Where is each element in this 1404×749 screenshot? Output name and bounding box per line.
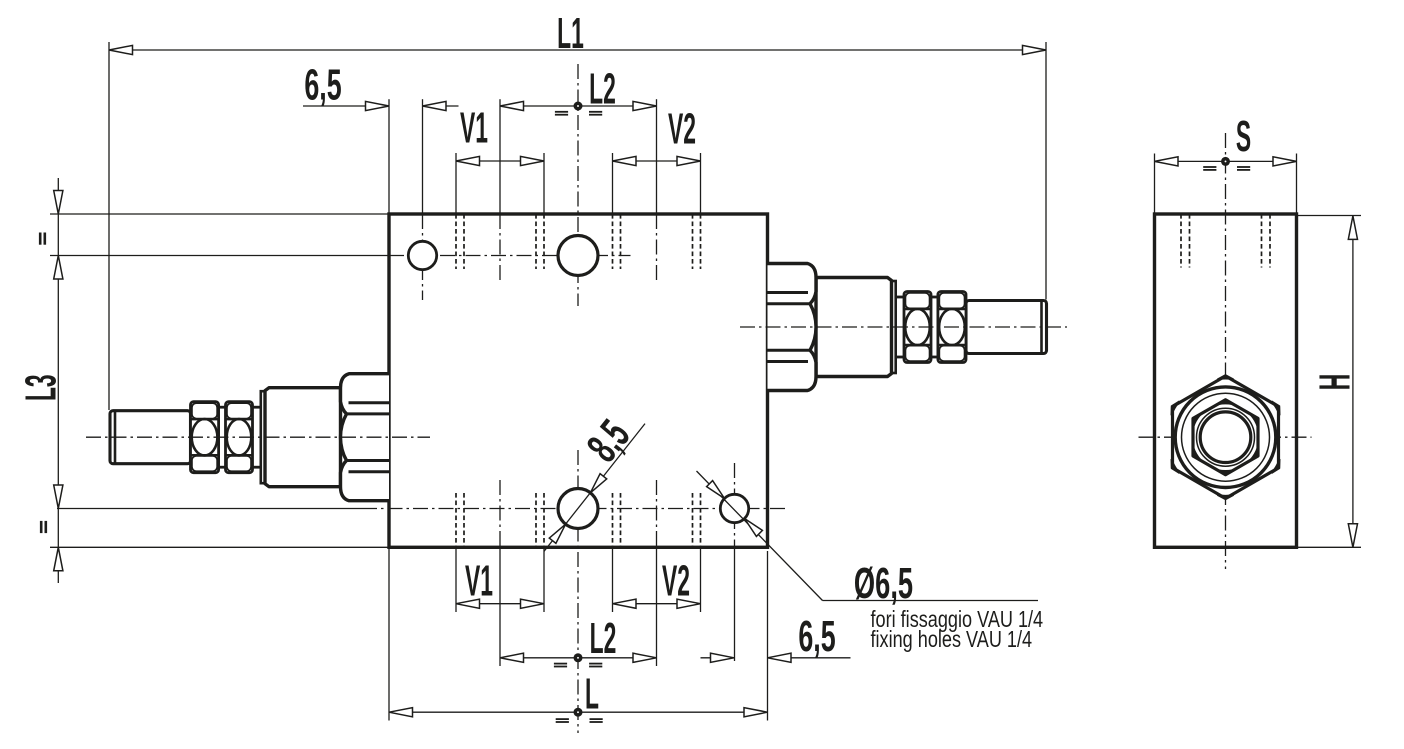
dimension S symmetry marks [1203, 166, 1216, 168]
dimension L1 right arrow [1023, 45, 1047, 54]
dimension L2 top symmetry marks [555, 111, 568, 113]
extension of block bottom edge [50, 546, 389, 548]
hidden thread lines port V1 bottom face [456, 493, 544, 547]
dimension V1 top right arrow [521, 156, 545, 165]
dimension V2 bottom extensions [612, 549, 614, 612]
dimension L line [389, 711, 768, 713]
hidden thread lines port V2 bottom face [613, 493, 701, 547]
vertical centerline port V1 top [499, 99, 501, 214]
dimension V1 bottom extensions [455, 549, 457, 612]
dimension V1 bottom line [456, 603, 544, 605]
dimension H down arrow [1348, 524, 1357, 548]
dimension 6.5 bottom line right [768, 657, 851, 659]
chamfer arcs outer hexagon [1171, 375, 1279, 499]
fixing hole top-left [408, 241, 436, 269]
horizontal centerline side view [1139, 436, 1312, 438]
dimension L2 top left arrow [500, 101, 524, 110]
fixing hole bottom-right 6.5 [720, 494, 748, 522]
dimension V1 top extensions [455, 153, 457, 214]
lock nut inner right cartridge [904, 292, 931, 363]
dimension S extensions [1154, 154, 1156, 215]
svg-text:L3: L3 [17, 374, 66, 401]
vertical centerline side view [1225, 133, 1227, 569]
dimension V2 top line [613, 160, 701, 162]
svg-text:6,5: 6,5 [798, 611, 835, 661]
lock nut outer right cartridge [938, 292, 966, 363]
dimension L1 line [109, 49, 1046, 51]
dimension L right arrow [744, 708, 768, 717]
dimension L extensions [388, 549, 390, 721]
vertical centerline port V2 top [656, 99, 658, 214]
dimension L1 right extension [1045, 42, 1047, 300]
dimension V2 bottom left arrow [613, 599, 637, 608]
dimension V2 bottom line [613, 603, 701, 605]
dimension L2 bottom line [500, 657, 657, 659]
leader 8.5 arrow upper [590, 474, 606, 493]
svg-text:V2: V2 [662, 557, 690, 606]
body flange lip left cartridge [261, 391, 265, 483]
outer hexagon cartridge front [1173, 376, 1279, 498]
thread circle front [1197, 408, 1255, 466]
hidden thread lines top face side view [1181, 214, 1270, 268]
dimension L1 left arrow [109, 45, 133, 54]
arrow down at block top edge [54, 191, 63, 215]
thread shaft segment 1 left cartridge [252, 407, 262, 467]
hex of cartridge body left [340, 374, 389, 501]
extension of block top edge [50, 213, 389, 215]
svg-text:L1: L1 [557, 9, 584, 58]
dimension S left arrow [1155, 157, 1179, 166]
centerline right cartridge [740, 326, 1067, 328]
dimension 6.5 top line right [423, 105, 459, 107]
svg-text:L: L [585, 670, 599, 719]
dimension L center dot [574, 708, 583, 717]
dimension H line [1352, 216, 1354, 547]
dimension L2 bottom symmetry marks [554, 663, 567, 665]
hidden thread lines port V1 top face [456, 214, 544, 269]
dimension L2 top right arrow [633, 101, 657, 110]
svg-text:fixing holes VAU 1/4: fixing holes VAU 1/4 [871, 627, 1033, 653]
dimension 6.5 bottom arrow left-pointing [768, 653, 792, 662]
lock nut inner left cartridge [226, 402, 253, 473]
dimension S center dot [1221, 157, 1230, 166]
horizontal centerline top hole row [389, 255, 631, 257]
vertical main centerline bottom [577, 450, 579, 733]
leader line diameter 6.5 horizontal [823, 600, 1039, 602]
svg-text:H: H [1311, 374, 1360, 391]
dimension L2 bottom right arrow [633, 653, 657, 662]
leader line diameter 6.5 diagonal [697, 471, 823, 601]
thread shaft segment 2 right cartridge [930, 297, 939, 357]
vertical centerline hole A top-left [422, 99, 424, 214]
leader 6.5 arrow lower [745, 519, 763, 537]
vertical centerline fixing hole bottom-right [734, 463, 736, 551]
dimension H extensions [1297, 215, 1361, 217]
dimension 6.5 bottom line left [701, 657, 735, 659]
dimension L2 top center dot [574, 102, 583, 111]
leader line 8.5 [544, 424, 645, 552]
dimension V2 top right arrow [677, 156, 701, 165]
symmetry mark bottom left [40, 521, 43, 533]
dimension L symmetry marks [556, 718, 569, 720]
vertical centerline port V1 bottom [499, 480, 501, 547]
svg-text:V1: V1 [465, 557, 493, 606]
dimension 6.5 top line left [303, 105, 389, 107]
dimension V2 top left arrow [613, 156, 637, 165]
centerline left cartridge [86, 436, 430, 438]
bore circle front [1200, 412, 1251, 463]
body flange lip right cartridge [892, 281, 896, 373]
svg-text:L2: L2 [589, 65, 616, 114]
svg-text:S: S [1236, 112, 1251, 161]
dimension H up arrow [1348, 216, 1357, 240]
horizontal centerline bottom hole row (extension) [57, 508, 362, 510]
dimension 6.5 top arrow right-pointing [366, 101, 390, 110]
dimension 6.5 top arrow left-pointing [423, 101, 447, 110]
port hole top-center [558, 236, 598, 276]
dimension 6.5 bottom arrow right-pointing [711, 653, 735, 662]
dimension V2 bottom right arrow [677, 599, 701, 608]
dimension V1 bottom left arrow [456, 599, 480, 608]
svg-text:6,5: 6,5 [304, 60, 341, 110]
dimension L1 left extension [108, 42, 110, 410]
chamfer circle front [1182, 393, 1270, 481]
horizontal centerline bottom hole row [362, 508, 787, 510]
dimension S line [1155, 160, 1297, 162]
hidden thread lines port V2 top face [613, 214, 701, 269]
symmetry mark top left [39, 233, 42, 245]
dimension S right arrow [1273, 157, 1297, 166]
adjustment stem right cartridge [966, 301, 1047, 354]
arrow down at bottom hole centerline [54, 485, 63, 509]
chamfer arcs inner hexagon [1193, 399, 1259, 475]
thread shaft segment 2 left cartridge [218, 407, 227, 467]
svg-text:Ø6,5: Ø6,5 [854, 558, 913, 607]
valve body right cartridge [816, 278, 892, 377]
dimension V2 top extensions [612, 153, 614, 214]
dimension V1 bottom right arrow [521, 599, 545, 608]
adjustment stem left cartridge [110, 411, 191, 464]
valve block front view outline [389, 214, 768, 547]
arrow up at top hole centerline [54, 256, 63, 280]
dimension L2 bottom left arrow [500, 653, 524, 662]
dimension V1 top left arrow [456, 156, 480, 165]
body circle front [1175, 387, 1276, 488]
vertical main centerline top [577, 64, 579, 306]
vertical centerline port V2 bottom [656, 480, 658, 547]
dimension V1 top line [456, 160, 544, 162]
port hole bottom-center 8.5 [558, 489, 598, 529]
dimension L2 bottom center dot [574, 653, 583, 662]
valve body left cartridge [265, 388, 341, 487]
valve block side view outline [1155, 214, 1297, 547]
thread shaft segment 1 right cartridge [895, 297, 905, 357]
leader 8.5 arrow lower [549, 524, 565, 543]
horizontal centerline top hole row (extension) [50, 255, 389, 257]
left dimension line vertical [57, 178, 59, 583]
svg-text:V1: V1 [460, 104, 488, 153]
svg-text:L2: L2 [590, 614, 617, 663]
svg-text:V2: V2 [668, 105, 696, 154]
hex of cartridge body right [768, 264, 817, 391]
arrow up at block bottom edge [54, 547, 63, 571]
dimension L left arrow [389, 708, 413, 717]
dimension 6.5 top extension block edge [388, 99, 390, 214]
lock nut outer left cartridge [191, 402, 219, 473]
inner hexagon nut front [1193, 400, 1258, 475]
leader 6.5 arrow upper [707, 481, 725, 499]
dimension L2 top line [500, 105, 657, 107]
